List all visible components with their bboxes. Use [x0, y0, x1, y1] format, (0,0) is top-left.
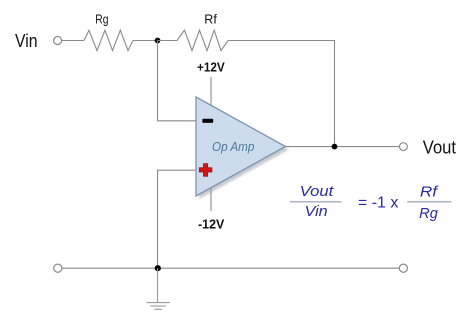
wire Rg to node A: [133, 40, 158, 42]
wire Vin to Rg: [62, 40, 84, 42]
svg-text:Vout: Vout: [423, 137, 456, 158]
resistor Rg: [84, 30, 133, 50]
svg-text:Vin: Vin: [305, 204, 328, 220]
op-amp U1 body: [196, 97, 286, 196]
svg-text:= -1 x: = -1 x: [358, 195, 399, 212]
wire op-amp output: [286, 146, 400, 148]
formula fraction bar Vout/Vin: [290, 201, 342, 203]
wire ground rail: [62, 267, 399, 269]
node Vout terminal: [400, 143, 408, 151]
op-amp inverting input minus sign: [202, 119, 213, 123]
node A junction dot: [155, 38, 161, 44]
node Vin terminal: [54, 37, 62, 45]
op-amp non-inverting input plus sign: [199, 164, 212, 177]
node ground rail left terminal: [54, 264, 62, 272]
svg-text:Vout: Vout: [300, 184, 335, 200]
wire -12V supply: [210, 187, 212, 211]
svg-text:Rg: Rg: [419, 206, 438, 222]
svg-text:+12V: +12V: [197, 59, 225, 74]
wire non-inverting input to ground rail: [158, 170, 197, 268]
wire node A to Rf: [158, 40, 178, 42]
wire feedback top: [228, 41, 335, 147]
resistor Rf: [177, 30, 228, 50]
svg-text:Vin: Vin: [15, 30, 38, 51]
svg-text:Rf: Rf: [204, 12, 217, 27]
ground: [147, 268, 170, 309]
svg-text:Rg: Rg: [95, 12, 108, 27]
svg-text:Op Amp: Op Amp: [212, 139, 254, 154]
node output junction dot: [332, 144, 338, 150]
wire +12V supply: [210, 77, 212, 106]
node ground rail junction dot: [155, 265, 161, 271]
node ground rail right terminal: [399, 264, 407, 272]
wire node A down to inverting input: [158, 41, 197, 121]
svg-text:-12V: -12V: [198, 217, 225, 232]
formula fraction bar Rf/Rg: [407, 201, 451, 203]
op-amp U1 shadow: [199, 100, 289, 199]
svg-text:Rf: Rf: [420, 184, 440, 200]
